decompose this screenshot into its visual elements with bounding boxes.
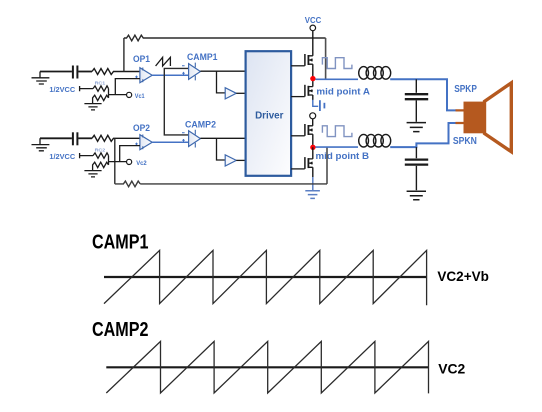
wire gate Q4 bbox=[291, 168, 305, 170]
wire OP1 output bbox=[152, 74, 188, 76]
wire feedback A vertical bbox=[123, 38, 125, 72]
ground GND6 (C4) bbox=[407, 191, 426, 200]
square wave icon B bbox=[322, 126, 352, 137]
svg-text:VCC: VCC bbox=[305, 16, 322, 25]
resistor RFA (feedback A) bbox=[124, 35, 326, 41]
op-amp OP2 bbox=[135, 135, 152, 150]
svg-text:SPKP: SPKP bbox=[454, 84, 477, 95]
ground bridge (blue) bbox=[305, 177, 320, 198]
wire CAMP2 to buffer B2 bbox=[217, 138, 226, 160]
terminal Vc1 bbox=[127, 92, 132, 97]
svg-text:CAMP2: CAMP2 bbox=[185, 119, 216, 129]
wire gate Q3 bbox=[291, 135, 305, 137]
wire Q4 drain to mid point B bbox=[312, 147, 314, 159]
svg-text:Driver: Driver bbox=[255, 111, 283, 122]
comparator CAMP2 bbox=[182, 130, 200, 148]
wire feedback B drop from mid point B bbox=[326, 147, 328, 184]
wire Q3 source to mid point B bbox=[312, 134, 314, 147]
wire Vc2 node bbox=[109, 161, 127, 163]
svg-text:Vc1: Vc1 bbox=[135, 93, 145, 100]
svg-text:SPKN: SPKN bbox=[453, 136, 477, 147]
capacitor C3 bbox=[405, 79, 428, 122]
wire row2 input bbox=[40, 137, 72, 139]
wire feedback A drop to mid point A bbox=[325, 38, 327, 79]
svg-text:1/2VCC: 1/2VCC bbox=[49, 87, 75, 94]
ground GND1 bbox=[32, 72, 50, 85]
wire mid point A to inductor bbox=[316, 78, 359, 80]
svg-text:VC2: VC2 bbox=[438, 360, 465, 376]
square wave icon A bbox=[322, 58, 352, 69]
wire L2 to SPKN bbox=[390, 123, 456, 147]
transistor Q3 bbox=[305, 124, 313, 136]
wire gate Q1 bbox=[291, 65, 305, 67]
ground GND2 (under RC1) bbox=[84, 104, 101, 110]
wire OP2 plus input bbox=[120, 146, 140, 162]
wire OP2 output bbox=[152, 141, 188, 143]
resistor R3 bbox=[92, 135, 140, 141]
waveform 2 baseline bbox=[106, 366, 428, 368]
svg-text:Vc2: Vc2 bbox=[136, 160, 147, 167]
wire row1 input bbox=[40, 71, 72, 73]
speaker terminal stubs bbox=[456, 110, 464, 123]
transistor Q1 bbox=[305, 54, 313, 66]
buffer B1 bbox=[225, 88, 236, 99]
wire Vc1 node bbox=[109, 94, 127, 96]
driver U1 bbox=[246, 51, 292, 176]
ground GND3 (row2 input) bbox=[32, 138, 50, 151]
waveform 1 baseline bbox=[104, 276, 427, 278]
ground GND4 (under RC2) bbox=[84, 171, 101, 177]
wire feedback B vertical left bbox=[114, 138, 116, 184]
wire mid point B to inductor bbox=[316, 146, 359, 148]
wire buffer B1 output bbox=[236, 92, 245, 94]
speaker LS1 bbox=[464, 83, 512, 152]
node mid point B bbox=[310, 145, 315, 150]
svg-text:OP2: OP2 bbox=[133, 123, 150, 133]
terminal VCC bbox=[310, 25, 316, 31]
op-amp OP1 bbox=[135, 68, 152, 83]
capacitor C2 bbox=[73, 132, 92, 145]
svg-text:mid point A: mid point A bbox=[316, 87, 370, 98]
wire CAMP1 to buffer B1 bbox=[217, 71, 226, 93]
inductor L2 bbox=[359, 134, 391, 147]
svg-text:mid point B: mid point B bbox=[316, 151, 370, 162]
wire Q2 source down bbox=[312, 95, 314, 100]
node mid point A bbox=[310, 76, 315, 81]
transistor Q2 bbox=[305, 85, 313, 97]
wire comparator reference tie bbox=[164, 68, 188, 134]
resistor R2 to ground row1 bbox=[93, 95, 109, 103]
sawtooth icon bbox=[156, 57, 171, 66]
svg-text:RC2: RC2 bbox=[95, 148, 106, 154]
svg-text:OP1: OP1 bbox=[133, 54, 150, 64]
comparator CAMP1 bbox=[182, 63, 200, 81]
wire buffer B2 output bbox=[236, 159, 245, 161]
resistor R4 to ground row2 bbox=[93, 162, 109, 170]
transistor Q4 bbox=[305, 157, 313, 169]
wire Q4 source down bbox=[312, 167, 314, 177]
wire feedback B horizontal bbox=[140, 183, 327, 185]
svg-text:CAMP2: CAMP2 bbox=[92, 319, 149, 341]
svg-text:CAMP1: CAMP1 bbox=[187, 52, 218, 62]
wire gate Q2 bbox=[291, 96, 305, 98]
svg-text:RC1: RC1 bbox=[95, 81, 106, 87]
terminal tick 1/2VCC row1 bbox=[80, 86, 93, 91]
buffer B2 bbox=[225, 155, 236, 166]
wire Q2 drain to mid point A bbox=[312, 79, 314, 87]
waveform 1 sawtooth bbox=[104, 250, 427, 305]
wire Q1 source to mid point A bbox=[312, 64, 314, 79]
resistor R1 bbox=[92, 69, 140, 75]
terminal Vc2 bbox=[127, 159, 132, 164]
resistor RFB (feedback B) bbox=[115, 181, 140, 187]
svg-text:CAMP1: CAMP1 bbox=[92, 232, 149, 254]
battery Vb bbox=[313, 100, 325, 111]
svg-text:1/2VCC: 1/2VCC bbox=[49, 154, 75, 161]
wire CAMP2 output bbox=[200, 137, 245, 139]
resistor RC2 bbox=[93, 153, 109, 165]
capacitor C4 bbox=[405, 147, 428, 190]
wire OP1 plus input bbox=[115, 79, 140, 95]
terminal bridge B supply bbox=[310, 113, 316, 119]
inductor L1 bbox=[359, 67, 391, 80]
waveform 2 sawtooth bbox=[106, 341, 428, 393]
ground GND5 (C3) bbox=[407, 123, 426, 132]
svg-text:VC2+Vb: VC2+Vb bbox=[437, 268, 489, 284]
capacitor C1 bbox=[73, 66, 92, 79]
terminal tick 1/2VCC row2 bbox=[80, 153, 93, 158]
resistor RC1 bbox=[93, 86, 109, 98]
wire VCC down bbox=[312, 31, 314, 56]
wire terminal to Q3 bbox=[312, 119, 314, 126]
wire CAMP1 output bbox=[200, 70, 245, 72]
wire L1 to SPKP bbox=[390, 79, 456, 110]
